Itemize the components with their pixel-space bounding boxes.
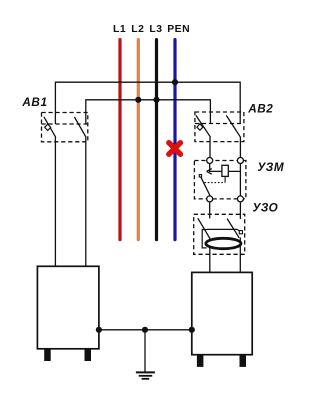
wire UZO pole2 to load2	[239, 237, 241, 272]
load box 1 foot left	[44, 349, 51, 361]
svg-text:L2: L2	[131, 24, 144, 35]
load box 2 foot left	[197, 355, 204, 367]
UZO differential toroid	[206, 238, 241, 248]
junction on PEN	[172, 79, 178, 85]
UZM coil	[222, 165, 228, 176]
UZM terminal circles	[207, 158, 213, 164]
wire L3 phase (black)	[155, 40, 158, 240]
wire L1 phase (red)	[118, 40, 121, 240]
UZM right pole wire	[239, 164, 241, 196]
UZM contact blade	[201, 177, 210, 196]
svg-text:L1: L1	[113, 24, 126, 35]
UZM coil feed line with arrow	[209, 170, 240, 172]
wire UZO pole1 to load2	[209, 237, 211, 272]
svg-text:УЗМ: УЗМ	[257, 161, 284, 174]
wire UZM to UZO pole2	[239, 202, 241, 219]
wire PEN (blue)	[173, 40, 176, 240]
breaker AB2	[195, 112, 244, 142]
PE bonding wire between loads	[99, 329, 192, 331]
relay UZM	[194, 158, 246, 202]
ground	[136, 372, 155, 378]
wire AB2 pole1 to UZM	[209, 137, 211, 158]
svg-text:АВ2: АВ2	[247, 102, 273, 115]
wire AB1 pole2 to load1	[85, 137, 87, 266]
UZM mechanical link (dotted)	[204, 182, 225, 184]
wire L2/L3 tap to AB1 pole2 and AB2 pole1	[86, 100, 211, 124]
wire AB2 pole2 to UZM	[239, 137, 241, 158]
svg-text:L3: L3	[149, 24, 162, 35]
UZM left pole stub	[209, 164, 211, 172]
UZO blade 2	[227, 219, 239, 238]
UZO test line and square	[207, 228, 237, 230]
RCD UZO	[194, 214, 245, 272]
junction at load2	[189, 327, 195, 333]
load box 2	[192, 272, 252, 354]
UZO blade 1	[198, 218, 210, 238]
UZM fixed contact tick	[199, 175, 201, 177]
UZO sensing loop	[202, 230, 207, 248]
load box 2 foot right	[240, 355, 247, 367]
load box 1	[37, 266, 99, 349]
junction on L3	[153, 97, 159, 103]
wire PEN tap to AB1 pole1 and AB2 pole2	[55, 82, 240, 124]
svg-text:УЗО: УЗО	[253, 201, 279, 214]
junction at load1	[96, 327, 102, 333]
junction at ground tap	[142, 327, 148, 333]
wire UZM to UZO pole1	[209, 202, 211, 219]
junction on L2	[135, 97, 141, 103]
wire AB1 pole1 to load1	[54, 137, 56, 266]
fault mark X on PEN	[169, 143, 181, 155]
load box 1 foot right	[85, 349, 92, 361]
wire L2 phase (orange)	[137, 40, 140, 240]
breaker AB1	[42, 113, 88, 142]
svg-text:PEN: PEN	[167, 24, 190, 35]
svg-text:АВ1: АВ1	[21, 96, 47, 109]
wire to ground	[144, 330, 146, 373]
